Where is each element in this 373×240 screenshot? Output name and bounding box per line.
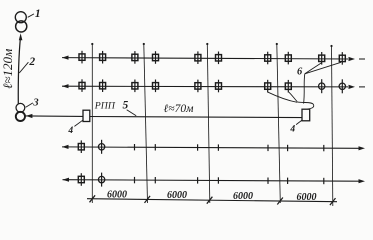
dimension tick at 332.7 (330, 198, 336, 205)
luminaire point row4 x134.5 (134, 177, 136, 183)
luminaire sq row2 col3R (216, 80, 222, 93)
label 4 left (67, 120, 83, 136)
svg-text:ℓ≈120м: ℓ≈120м (0, 49, 15, 89)
luminaire point row3 x268.0 (267, 145, 269, 151)
luminaire point row3 x287.6 (287, 145, 289, 151)
luminaire sq row2 col4L (265, 80, 271, 93)
luminaire point row3 x134.5 (134, 144, 136, 150)
column grid line 4 (276, 43, 281, 203)
column grid line 5 (330, 45, 332, 206)
wire group line row 4 (63, 178, 366, 184)
luminaire sq row1 col3L (195, 51, 201, 64)
luminaire sq row2 col4R (285, 80, 291, 93)
input device 3 (16, 103, 25, 121)
wire drops 6 to row1 (305, 62, 341, 74)
luminaire point row3 x323.8 (323, 145, 325, 151)
svg-text:РПП: РПП (94, 101, 116, 112)
label 4 right (289, 120, 302, 134)
luminaire sq row1 col2L (132, 51, 138, 64)
luminaire ci row3 col1R (98, 140, 104, 154)
luminaire sq row2 col2L (132, 80, 138, 93)
cabinet RPP 4 left (83, 110, 90, 121)
wire group line row 3 (62, 145, 365, 151)
svg-text:6: 6 (297, 66, 303, 77)
dimension tick at 280.1 (277, 198, 283, 205)
label l~120m (0, 49, 15, 89)
transformer 1 (15, 12, 27, 32)
cabinet 4 right (302, 109, 310, 121)
luminaire ci row2 col5R (339, 79, 345, 93)
luminaire point row4 x218.4 (217, 177, 219, 183)
luminaire point row3 x197.6 (197, 144, 199, 150)
column grid line 3 (206, 43, 210, 203)
wire group line row 1 (62, 56, 365, 62)
luminaire point row4 x268.0 (267, 178, 269, 184)
wire feeder to RPP (25, 114, 83, 118)
luminaire sq row1 col3R (216, 52, 222, 65)
wire feeder line 5 l~70m (90, 117, 302, 118)
luminaire point row4 x323.8 (323, 178, 325, 184)
label 6 (297, 66, 303, 77)
svg-text:3: 3 (32, 97, 38, 108)
dimension tick at 147.3 (145, 196, 151, 203)
luminaire sq row2 col1R (100, 79, 106, 92)
svg-text:6000: 6000 (233, 191, 253, 202)
dimension label 6000 bay 2 (167, 190, 187, 201)
luminaire point row3 x218.4 (217, 144, 219, 150)
column grid line 2 (143, 43, 148, 203)
wire group line row 2 (62, 84, 365, 89)
luminaire ci row2 col5L (319, 79, 325, 93)
luminaire sq row2 col1L (79, 79, 85, 92)
svg-text:2: 2 (28, 56, 35, 68)
label RPP (94, 101, 116, 112)
luminaire point row3 x155.3 (154, 144, 156, 150)
label 3 (26, 97, 39, 108)
svg-text:5: 5 (123, 100, 129, 112)
luminaire sq row1 col1L (79, 51, 85, 64)
luminaire sq row1 col2R (153, 51, 159, 64)
luminaire sq row1 col4L (265, 52, 271, 65)
luminaire sq row1 col5L (319, 52, 325, 65)
svg-text:4: 4 (67, 126, 73, 136)
column grid line 1 (91, 43, 93, 203)
wire 2 supply line l~120m (18, 33, 22, 104)
luminaire sq row2 col3L (195, 80, 201, 93)
svg-text:ℓ≈70м: ℓ≈70м (164, 103, 195, 115)
luminaire sq row3 col1L (78, 140, 84, 153)
dimension tick at 92.3 (90, 195, 96, 202)
label 2 (19, 56, 35, 73)
luminaire sq row1 col5R (339, 52, 345, 65)
label l~70m (164, 103, 195, 115)
luminaire ci row4 col1R (98, 173, 104, 187)
svg-text:4: 4 (289, 124, 295, 134)
svg-text:6000: 6000 (107, 189, 127, 200)
luminaire point row4 x197.6 (197, 177, 199, 183)
dimension line (87, 199, 337, 202)
label 1 (28, 8, 41, 20)
svg-text:6000: 6000 (297, 192, 317, 203)
luminaire point row4 x287.6 (287, 178, 289, 184)
dimension label 6000 bay 1 (107, 189, 127, 200)
wire drops from row2 to cabinet (267, 92, 314, 109)
svg-text:6000: 6000 (167, 190, 187, 201)
dimension label 6000 bay 3 (233, 191, 253, 202)
svg-text:1: 1 (35, 8, 41, 20)
wire riser 6 vertical (304, 74, 305, 104)
dimension label 6000 bay 4 (297, 192, 317, 203)
luminaire sq row4 col1L (78, 173, 84, 186)
luminaire sq row2 col2R (153, 80, 159, 93)
dimension tick at 209.6 (207, 197, 213, 204)
luminaire point row4 x155.3 (154, 177, 156, 183)
luminaire sq row1 col1R (100, 51, 106, 64)
label 5 (123, 100, 137, 116)
luminaire sq row1 col4R (285, 52, 291, 65)
